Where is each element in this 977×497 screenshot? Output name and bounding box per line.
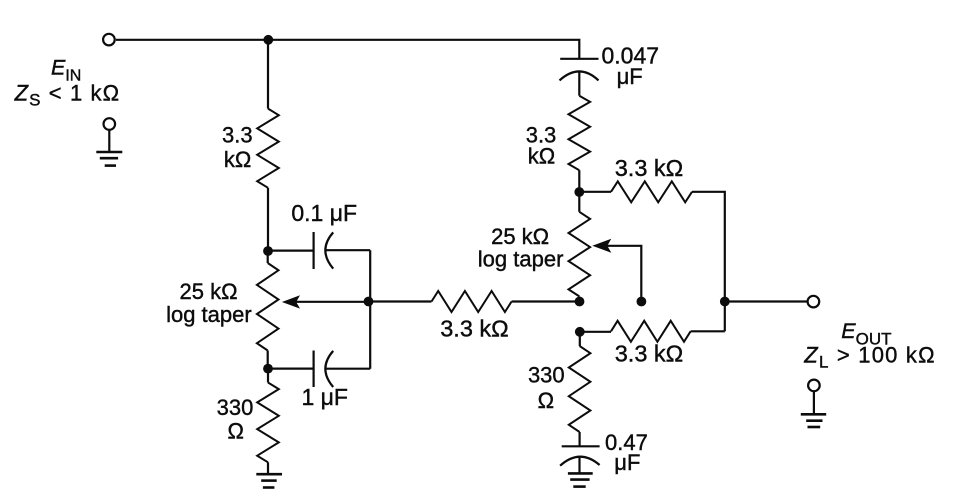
svg-text:3.3 kΩ: 3.3 kΩ: [615, 341, 684, 367]
svg-text:3.3 kΩ: 3.3 kΩ: [615, 155, 684, 181]
svg-text:μF: μF: [614, 450, 640, 475]
svg-text:log taper: log taper: [478, 247, 564, 272]
svg-text:3.3 kΩ: 3.3 kΩ: [440, 316, 509, 342]
svg-text:330: 330: [217, 395, 254, 420]
svg-text:Ω: Ω: [227, 419, 243, 444]
svg-text:log taper: log taper: [166, 302, 252, 327]
svg-text:kΩ: kΩ: [224, 147, 251, 172]
svg-text:1 μF: 1 μF: [301, 384, 347, 410]
svg-text:0.1 μF: 0.1 μF: [291, 200, 357, 226]
svg-text:330: 330: [528, 363, 565, 388]
svg-text:ZS < 1 kΩ: ZS < 1 kΩ: [14, 80, 121, 109]
svg-text:3.3: 3.3: [222, 123, 253, 148]
svg-text:kΩ: kΩ: [528, 144, 555, 169]
svg-text:Ω: Ω: [538, 388, 554, 413]
svg-text:25 kΩ: 25 kΩ: [491, 224, 549, 249]
svg-text:25 kΩ: 25 kΩ: [179, 279, 237, 304]
svg-text:ZL > 100 kΩ: ZL > 100 kΩ: [803, 343, 935, 372]
svg-text:μF: μF: [617, 64, 643, 89]
